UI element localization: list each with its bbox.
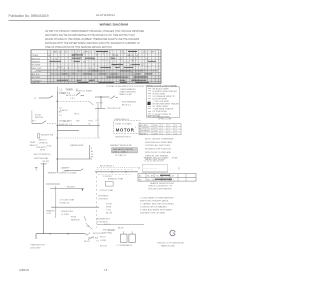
svg-text:BK W: BK W: [118, 228, 123, 230]
svg-text:PRODUCT OF GIBSON INC: PRODUCT OF GIBSON INC: [158, 243, 185, 245]
svg-text:OR ORANGE WIRE TR: OR ORANGE WIRE TR: [153, 95, 176, 98]
cabinet gnd label: [61, 166, 71, 172]
manufacturer logo G: [158, 230, 185, 247]
svg-text:OR BK 4-6: OR BK 4-6: [59, 202, 70, 204]
wire junction speck: [96, 102, 103, 104]
svg-text:BUZZER BR T: BUZZER BR T: [97, 218, 111, 220]
contact column labels: [91, 148, 94, 159]
svg-text:GLGT1142KS1: GLGT1142KS1: [96, 13, 115, 17]
svg-text:MOTOR SWITCH: MOTOR SWITCH: [34, 154, 51, 156]
wire run 125: [57, 124, 100, 126]
svg-text:5600W 240V: 5600W 240V: [61, 211, 74, 213]
svg-text:DRYNESS: DRYNESS: [140, 131, 151, 133]
bottom center cluster: [84, 233, 103, 243]
schematic notes list: [140, 186, 174, 215]
legend title: [146, 85, 178, 87]
wire to motor switch: [95, 96, 110, 97]
svg-text:THERMOSTAT: THERMOSTAT: [70, 144, 85, 147]
wiring notes: [145, 138, 174, 160]
wire vertical x98: [97, 104, 99, 138]
radiant sensor box: [110, 144, 137, 157]
footer code: [19, 268, 29, 272]
svg-text:W: W: [91, 154, 93, 156]
motor centrifugal switch: [111, 96, 118, 99]
svg-text:EXHAUST STAT: EXHAUST STAT: [108, 178, 124, 181]
chart notes: [106, 85, 144, 91]
svg-text:COPPER. ALL SWITCHES: COPPER. ALL SWITCHES: [145, 144, 171, 147]
svg-text:MADE IN USA: MADE IN USA: [161, 244, 175, 247]
fuse F1: [121, 234, 127, 242]
svg-text:BUZZER SW: BUZZER SW: [41, 134, 53, 136]
contact speck row: [70, 98, 75, 100]
svg-text:CYCLING STAT: CYCLING STAT: [59, 199, 75, 202]
node L1: [34, 98, 37, 100]
svg-text:L1 TERMINAL N: L1 TERMINAL N: [117, 244, 133, 247]
svg-text:OFF AUTO: OFF AUTO: [36, 146, 47, 149]
wire run 159: [57, 158, 92, 160]
svg-text:RUN WINDING: RUN WINDING: [122, 102, 137, 104]
outlet label: [99, 189, 113, 192]
svg-text:CORD: CORD: [100, 240, 107, 242]
flame switch: [86, 223, 93, 230]
start winding label: [120, 91, 137, 97]
svg-text:SELECT: SELECT: [39, 139, 48, 141]
svg-text:TIMER MOTOR: TIMER MOTOR: [30, 245, 45, 247]
page number: [104, 268, 108, 272]
svg-text:2. CABINET MUST BE GROUNDED: 2. CABINET MUST BE GROUNDED: [140, 202, 174, 205]
temp selector switch: [30, 142, 39, 147]
svg-text:CONTROL: CONTROL: [98, 198, 109, 200]
svg-text:HEATER: HEATER: [32, 61, 41, 64]
svg-text:TIME OF PUBLICATION OF THIS SE: TIME OF PUBLICATION OF THIS SERVICE MANU…: [45, 46, 112, 49]
svg-text:SUPPLIED WITH THE DRYER WHEN C: SUPPLIED WITH THE DRYER WHEN CHECKING CI…: [45, 42, 140, 45]
dryness control cluster: [98, 195, 109, 200]
svg-text:OR BK W: OR BK W: [39, 143, 48, 145]
svg-text:HEATER CIRCUIT CHART: HEATER CIRCUIT CHART: [144, 156, 170, 159]
svg-text:SAFETY: SAFETY: [140, 132, 149, 135]
svg-text:DOOR SW: DOOR SW: [88, 237, 98, 239]
timer label: [59, 93, 76, 97]
heater terminal labels: [61, 211, 74, 216]
svg-text:R GY BR: R GY BR: [103, 176, 112, 178]
svg-text:TIMER: TIMER: [32, 55, 39, 57]
svg-text:FUSE: FUSE: [172, 157, 178, 159]
svg-text:W - BK - OR - BL - Y - R - GY: W - BK - OR - BL - Y - R - GY: [147, 176, 175, 178]
svg-text:AND PARTS MAY BE INCORPORATED: AND PARTS MAY BE INCORPORATED IN THE DRY…: [45, 34, 135, 37]
svg-text:SWITCH: SWITCH: [35, 117, 44, 119]
drum light labels: [59, 121, 94, 126]
svg-text:W BK: W BK: [106, 207, 112, 209]
svg-text:SIZE AND TYPE OF WIRE.: SIZE AND TYPE OF WIRE.: [140, 211, 166, 214]
wire run 130: [57, 130, 79, 132]
svg-text:GIBSON: GIBSON: [19, 268, 29, 272]
svg-text:HI-LIMIT: HI-LIMIT: [67, 186, 76, 188]
door switch symbol top: [76, 90, 93, 96]
svg-text:HEATER HOUSING L2 N GND: HEATER HOUSING L2 N GND: [48, 172, 77, 175]
svg-text:COIL: COIL: [46, 213, 52, 215]
node L1 label: [57, 86, 73, 91]
svg-text:SENSOR INPUT: SENSOR INPUT: [115, 137, 131, 139]
model number text: [96, 13, 115, 17]
bottom left labels: [100, 237, 107, 242]
svg-text:BL OR: BL OR: [106, 213, 113, 215]
svg-text:MOTOR N: MOTOR N: [93, 233, 103, 235]
bus wire B vertical: [43, 163, 45, 234]
relay box label above: [96, 119, 130, 122]
svg-text:W BK: W BK: [71, 216, 77, 218]
wiring diagram title: [100, 23, 129, 27]
svg-text:OPEN CLOSE: OPEN CLOSE: [158, 118, 172, 120]
svg-text:OUTLET STAT: OUTLET STAT: [99, 189, 113, 192]
terminal stub wires: [108, 230, 132, 234]
dashed interlock wire: [57, 101, 93, 105]
svg-text:THERMOSTAT: THERMOSTAT: [146, 114, 161, 117]
svg-text:MED TMP: MED TMP: [32, 68, 42, 70]
svg-text:SHOWN IN OFF POSITION: SHOWN IN OFF POSITION: [145, 149, 171, 151]
publication number text: [9, 14, 49, 18]
terminal strip labels: [138, 168, 181, 170]
svg-text:PROTECTOR: PROTECTOR: [107, 108, 121, 110]
svg-text:- - - - - - - - - - -: - - - - - - - - - - -: [144, 168, 158, 170]
svg-text:L2 R BK: L2 R BK: [61, 214, 69, 216]
dotted wire 138: [57, 137, 100, 139]
svg-text:CHECK CONTINUITY OF: CHECK CONTINUITY OF: [148, 186, 173, 188]
svg-text:CONTACTS SHOWN IN OFF POSITION: CONTACTS SHOWN IN OFF POSITION: [106, 85, 144, 88]
terminal strip line: [142, 165, 168, 172]
svg-text:SPECIFIED ALL WIRES ARE: SPECIFIED ALL WIRES ARE: [145, 141, 173, 144]
svg-text:W OR: W OR: [84, 241, 90, 243]
heater table heading: [144, 156, 178, 162]
svg-text:NEUTRAL: NEUTRAL: [102, 232, 113, 235]
dashes 169-175: [97, 170, 134, 175]
svg-text:PUSH TO START: PUSH TO START: [76, 90, 93, 93]
svg-text:Y GY: Y GY: [106, 210, 112, 212]
svg-text:7-6: 7-6: [104, 268, 108, 272]
dashed vertical x96: [96, 172, 98, 228]
svg-text:DOOR: DOOR: [35, 114, 42, 116]
vent label: [108, 178, 124, 181]
thermal cutoff wires: [46, 184, 84, 191]
selector extra rows: [36, 146, 47, 152]
svg-text:OR 4: OR 4: [74, 114, 80, 116]
motor switch label: [34, 154, 51, 166]
svg-text:MOTOR: MOTOR: [32, 58, 40, 60]
wire L1 feed: [39, 96, 53, 98]
door switch wire: [32, 121, 57, 124]
door switch drop wire: [31, 111, 33, 124]
svg-text:RADIANT SENSOR BK: RADIANT SENSOR BK: [110, 144, 132, 147]
svg-text:MOTOR: MOTOR: [116, 128, 135, 133]
svg-text:HEATER: HEATER: [46, 209, 55, 212]
terminal block table: [138, 174, 196, 186]
svg-text:AS PART OF PRODUCT IMPROVEMENT: AS PART OF PRODUCT IMPROVEMENT PROGRAM, …: [45, 30, 145, 33]
lower cluster: [102, 228, 123, 235]
fuse F2: [129, 234, 135, 242]
svg-text:CONTROL: CONTROL: [140, 128, 151, 130]
vertical wire x89: [88, 145, 90, 159]
svg-text:CENTRIFUGAL: CENTRIFUGAL: [34, 157, 50, 160]
heater coil labels: [46, 209, 55, 215]
timer motor label bottom: [30, 245, 45, 250]
svg-text:2 ]: 2 ]: [178, 168, 181, 170]
wire run 171.8: [95, 171, 138, 172]
svg-text:WITH DOOR CLOSED AND: WITH DOOR CLOSED AND: [145, 151, 172, 154]
thermostat label mid: [70, 144, 85, 147]
svg-text:120V 60HZ: 120V 60HZ: [30, 247, 41, 249]
door switch label: [35, 114, 44, 119]
start switch diagonal: [88, 236, 94, 240]
dotted wire mid 167: [97, 167, 140, 169]
notice paragraph: [45, 30, 145, 49]
relay box label: [115, 137, 131, 139]
svg-text:3. REPLACE WIRES WITH SAME: 3. REPLACE WIRES WITH SAME: [140, 208, 172, 211]
motor protector label: [107, 108, 121, 110]
svg-text:NOTE: UNLESS OTHERWISE: NOTE: UNLESS OTHERWISE: [145, 138, 174, 140]
harness color row: [100, 165, 115, 177]
svg-text:WIRING DIAGRAM: WIRING DIAGRAM: [100, 23, 129, 27]
svg-text:PLUG: PLUG: [100, 237, 106, 239]
svg-text:CABINET: CABINET: [61, 166, 71, 169]
svg-text:L1 TO L2 240 VOLTS: L1 TO L2 240 VOLTS: [144, 160, 164, 162]
run winding label: [122, 102, 137, 107]
svg-text:BK W 5-3: BK W 5-3: [66, 95, 76, 97]
svg-text:MAJOR CHANGE IN THE MODEL NUMB: MAJOR CHANGE IN THE MODEL NUMBER. THEREF…: [45, 38, 139, 41]
node N label: [76, 89, 78, 91]
wire run 207: [51, 206, 99, 208]
svg-text:W GN BK R: W GN BK R: [97, 221, 109, 223]
svg-text:START WINDING: START WINDING: [120, 91, 137, 94]
relay box dashed: [114, 121, 140, 134]
heater label: [48, 172, 77, 175]
svg-text:L1 N L2: L1 N L2: [108, 230, 116, 232]
wire run 170: [65, 169, 83, 171]
svg-text:MAIN 5-6 BK: MAIN 5-6 BK: [120, 93, 133, 96]
wire long bottom: [36, 233, 84, 239]
timer contact labels: [59, 108, 63, 117]
svg-text:R 10K: R 10K: [106, 204, 112, 206]
thermostat table: [139, 114, 181, 135]
interlock speck rows: [60, 110, 80, 115]
thermostat cluster: [59, 199, 75, 205]
svg-text:Publication No. 5995441819: Publication No. 5995441819: [9, 14, 49, 18]
legend box: [147, 87, 180, 119]
svg-text:DRYNESS: DRYNESS: [98, 195, 109, 197]
svg-text:BK-W 2-3: BK-W 2-3: [122, 105, 132, 107]
buzzer cluster: [97, 218, 144, 226]
svg-text:1M 2M: 1M 2M: [96, 102, 103, 104]
door frame speck: [32, 120, 37, 122]
igniter cluster: [71, 216, 86, 221]
svg-text:BLOCK: BLOCK: [100, 245, 108, 247]
selector labels: [39, 139, 53, 147]
timer sequence chart: [31, 50, 161, 84]
svg-text:SENSOR: SENSOR: [71, 219, 80, 221]
small component box mid: [105, 182, 113, 186]
header rule: [9, 20, 161, 22]
fuse labels: [100, 244, 132, 247]
ground symbol: [35, 168, 37, 171]
resistor R1 rows: [106, 204, 113, 215]
bus wire C vertical: [55, 186, 57, 218]
svg-text:SERVICING THE APPLIANCE.: SERVICING THE APPLIANCE.: [140, 199, 169, 202]
svg-text:1. DISCONNECT POWER BEFORE: 1. DISCONNECT POWER BEFORE: [140, 197, 174, 199]
svg-text:W R BK 2-4: W R BK 2-4: [115, 155, 127, 157]
svg-text:HI-LIMIT: HI-LIMIT: [140, 125, 149, 127]
svg-text:CIRCUITS WITH METER: CIRCUITS WITH METER: [148, 189, 172, 191]
left small component box: [37, 134, 53, 138]
svg-text:COIL 1 - COIL 2: COIL 1 - COIL 2: [113, 152, 129, 154]
bus wire A vertical: [57, 91, 58, 172]
svg-text:HI TEMP: HI TEMP: [32, 65, 41, 67]
svg-text:BK W OR BL Y: BK W OR BL Y: [100, 165, 115, 167]
svg-text:TIMER: TIMER: [66, 89, 74, 91]
svg-text:OR W: OR W: [63, 121, 69, 123]
svg-text:PUSH TO START: PUSH TO START: [115, 123, 132, 126]
svg-text:TO AVOID SHOCK HAZARD.: TO AVOID SHOCK HAZARD.: [140, 205, 168, 208]
svg-text:SW: SW: [76, 121, 79, 123]
svg-text:GY GRAY WIRE: GY GRAY WIRE: [153, 105, 169, 108]
wire motor branch: [95, 97, 105, 108]
svg-text:W BK: W BK: [40, 149, 46, 151]
svg-text:W WHITE WIRE TRACER: W WHITE WIRE TRACER: [153, 90, 178, 93]
svg-text:N BK W: N BK W: [60, 110, 67, 112]
